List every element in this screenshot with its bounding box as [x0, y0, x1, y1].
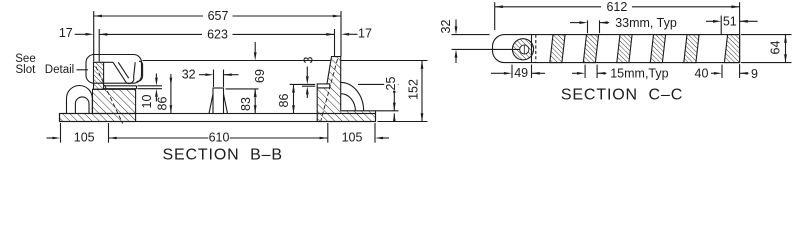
- svg-text:SECTION C–C: SECTION C–C: [561, 87, 683, 104]
- svg-text:86: 86: [155, 97, 169, 111]
- svg-text:657: 657: [208, 9, 229, 23]
- svg-text:610: 610: [209, 130, 230, 144]
- svg-text:105: 105: [74, 130, 95, 144]
- svg-text:40: 40: [695, 67, 709, 81]
- svg-text:10: 10: [140, 95, 154, 109]
- svg-text:17: 17: [358, 27, 372, 41]
- svg-text:Slot: Slot: [15, 64, 36, 76]
- svg-text:9: 9: [751, 67, 758, 81]
- svg-text:623: 623: [207, 27, 228, 41]
- svg-text:SECTION B–B: SECTION B–B: [162, 147, 282, 164]
- svg-text:152: 152: [406, 79, 420, 100]
- svg-text:15mm,Typ: 15mm,Typ: [610, 67, 668, 81]
- svg-text:32: 32: [439, 20, 453, 34]
- svg-text:612: 612: [606, 0, 627, 14]
- svg-text:83: 83: [239, 97, 253, 111]
- svg-text:64: 64: [769, 41, 783, 55]
- svg-text:33mm, Typ: 33mm, Typ: [615, 16, 677, 30]
- svg-text:51: 51: [723, 14, 737, 28]
- svg-text:32: 32: [182, 68, 196, 82]
- svg-text:17: 17: [59, 26, 73, 40]
- svg-text:25: 25: [384, 77, 398, 91]
- svg-text:105: 105: [342, 130, 363, 144]
- svg-text:69: 69: [253, 69, 267, 83]
- svg-text:86: 86: [277, 94, 291, 108]
- svg-text:3: 3: [301, 56, 315, 63]
- svg-text:49: 49: [514, 66, 528, 80]
- svg-text:Detail: Detail: [45, 64, 74, 76]
